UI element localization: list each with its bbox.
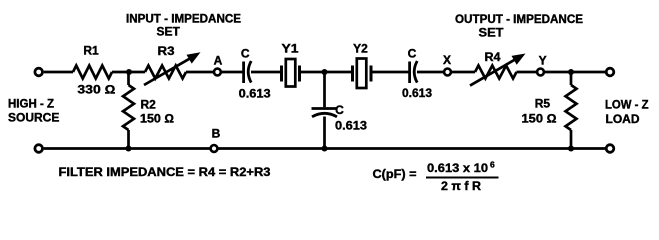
resistor R2 branch	[127, 72, 130, 85]
wire	[372, 71, 408, 74]
svg-text:OUTPUT - IMPEDANCE: OUTPUT - IMPEDANCE	[455, 12, 583, 26]
node junction R5 bottom	[568, 146, 574, 152]
resistor R3 (variable)	[145, 66, 186, 79]
resistor R4 (variable)	[475, 66, 517, 79]
svg-text:SET: SET	[157, 25, 181, 39]
wire	[112, 71, 145, 74]
svg-text:LOAD: LOAD	[606, 112, 640, 126]
wire	[221, 71, 242, 74]
node Y	[537, 69, 544, 76]
svg-text:C: C	[408, 47, 417, 61]
svg-text:A: A	[214, 54, 223, 68]
wire	[251, 71, 280, 74]
svg-text:FILTER IMPEDANCE = R4 = R2+: FILTER IMPEDANCE = R4 = R2+R3	[59, 165, 271, 179]
R3 variable arrow	[144, 57, 193, 85]
svg-text:Y2: Y2	[353, 42, 368, 56]
svg-text:R1: R1	[83, 44, 99, 58]
svg-text:R2: R2	[141, 98, 157, 112]
node junction R5 top	[568, 69, 574, 75]
svg-text:0.613: 0.613	[402, 86, 432, 100]
node junction C3 bottom	[322, 146, 328, 152]
svg-text:C: C	[241, 47, 250, 61]
wire	[218, 147, 606, 150]
R4 variable arrow	[470, 58, 518, 86]
terminal top-left	[35, 68, 43, 76]
svg-text:B: B	[212, 127, 221, 141]
svg-text:330 Ω: 330 Ω	[77, 83, 115, 97]
terminal bottom-left	[35, 145, 43, 153]
svg-text:0.613 x 10: 0.613 x 10	[427, 161, 488, 175]
terminal top-right	[606, 68, 614, 76]
node junction Y1/Y2/C3	[322, 69, 328, 75]
svg-text:SET: SET	[479, 26, 505, 40]
svg-text:X: X	[443, 53, 451, 67]
node junction R1/R2/R3	[126, 69, 132, 75]
node A	[214, 69, 221, 76]
svg-text:LOW - Z: LOW - Z	[605, 98, 649, 112]
svg-text:Y1: Y1	[282, 42, 299, 56]
svg-text:C: C	[335, 103, 344, 117]
svg-text:6: 6	[490, 160, 495, 170]
capacitor C2	[408, 62, 411, 84]
svg-text:R5: R5	[535, 97, 551, 111]
wire	[186, 71, 214, 74]
wire	[301, 71, 351, 74]
svg-text:INPUT - IMPEDANCE: INPUT - IMPEDANCE	[126, 12, 241, 26]
capacitor C3 branch	[323, 72, 326, 107]
svg-text:R3: R3	[158, 44, 175, 58]
svg-text:150 Ω: 150 Ω	[140, 112, 174, 126]
node junction R2 bottom	[126, 146, 132, 152]
svg-text:SOURCE: SOURCE	[8, 111, 59, 125]
wire	[451, 71, 475, 74]
svg-text:150 Ω: 150 Ω	[522, 112, 557, 126]
crystal Y2	[351, 66, 354, 82]
svg-text:C(pF) =: C(pF) =	[373, 167, 417, 181]
svg-text:2 π f R: 2 π f R	[441, 179, 481, 193]
resistor R1	[73, 66, 112, 79]
svg-text:Y: Y	[539, 54, 547, 68]
wire	[417, 71, 444, 74]
node B	[211, 145, 218, 152]
svg-text:0.613: 0.613	[239, 87, 271, 101]
svg-text:0.613: 0.613	[335, 119, 367, 133]
capacitor C1	[242, 62, 245, 84]
svg-text:HIGH - Z: HIGH - Z	[8, 97, 54, 111]
node X	[444, 69, 451, 76]
bottom rail wire	[44, 147, 211, 150]
wire	[517, 71, 537, 74]
svg-text:R4: R4	[485, 50, 501, 64]
terminal bottom-right	[606, 145, 614, 153]
crystal Y1	[280, 66, 283, 82]
wire	[44, 71, 73, 74]
wire	[544, 71, 605, 74]
resistor R5 branch	[570, 72, 573, 85]
